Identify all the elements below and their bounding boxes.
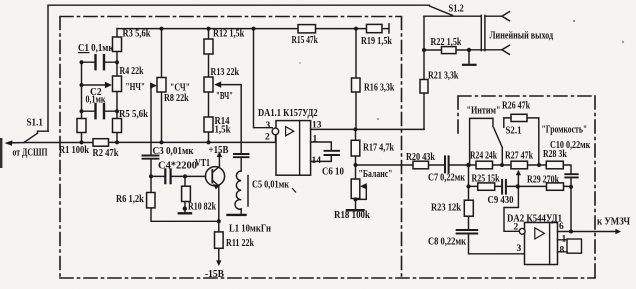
svg-text:R21 3,3k: R21 3,3k bbox=[428, 71, 459, 82]
svg-text:R19 1,5k: R19 1,5k bbox=[361, 36, 392, 47]
svg-text:C8 0,22мк: C8 0,22мк bbox=[428, 237, 467, 248]
svg-text:8: 8 bbox=[560, 246, 565, 256]
svg-text:C9 430: C9 430 bbox=[488, 195, 514, 206]
svg-text:R5 5,6k: R5 5,6k bbox=[119, 109, 148, 120]
svg-text:R8 22k: R8 22k bbox=[164, 93, 189, 104]
svg-text:к УМЗЧ: к УМЗЧ bbox=[597, 217, 630, 228]
svg-text:R10 82k: R10 82k bbox=[188, 202, 216, 213]
svg-text:R13 22k: R13 22k bbox=[211, 67, 240, 78]
svg-text:R20 43k: R20 43k bbox=[406, 152, 435, 163]
svg-text:14: 14 bbox=[312, 156, 322, 166]
svg-text:3: 3 bbox=[517, 244, 522, 254]
svg-text:R11 22k: R11 22k bbox=[226, 238, 254, 249]
svg-text:0,1мк: 0,1мк bbox=[86, 95, 107, 106]
svg-text:R27 47k: R27 47k bbox=[505, 151, 533, 162]
svg-text:"Интим": "Интим" bbox=[467, 106, 501, 117]
svg-text:R25 15k: R25 15k bbox=[472, 174, 500, 185]
svg-text:"Баланс": "Баланс" bbox=[359, 169, 393, 180]
svg-text:R6 1,2k: R6 1,2k bbox=[116, 194, 144, 205]
svg-text:L1 10мкГн: L1 10мкГн bbox=[229, 224, 271, 235]
svg-text:C4*2200: C4*2200 bbox=[158, 161, 197, 172]
svg-text:C7 0,22мк: C7 0,22мк bbox=[428, 173, 466, 184]
svg-text:R22 1,5k: R22 1,5k bbox=[431, 37, 462, 48]
svg-text:+15В: +15В bbox=[209, 145, 229, 156]
svg-text:R24 24k: R24 24k bbox=[470, 151, 497, 162]
svg-text:R16 3,3k: R16 3,3k bbox=[364, 83, 395, 94]
svg-text:C5 0,01мк: C5 0,01мк bbox=[252, 180, 290, 191]
svg-text:"ВЧ": "ВЧ" bbox=[216, 91, 233, 102]
svg-text:R1 100k: R1 100k bbox=[59, 145, 89, 156]
svg-text:Линейный выход: Линейный выход bbox=[490, 31, 554, 42]
svg-text:R23 12k: R23 12k bbox=[431, 203, 461, 214]
svg-text:1,5k: 1,5k bbox=[215, 125, 231, 136]
svg-text:R17 4,7k: R17 4,7k bbox=[363, 143, 394, 154]
svg-text:"Громкость": "Громкость" bbox=[542, 125, 588, 136]
svg-text:3: 3 bbox=[266, 121, 271, 131]
svg-text:S2.1: S2.1 bbox=[506, 126, 522, 137]
svg-text:-15В: -15В bbox=[205, 269, 224, 280]
svg-text:S1.2: S1.2 bbox=[449, 4, 464, 15]
svg-text:R2 47k: R2 47k bbox=[93, 148, 119, 159]
svg-text:R15 47k: R15 47k bbox=[292, 35, 318, 46]
svg-text:DA1.1 К157УД2: DA1.1 К157УД2 bbox=[258, 108, 318, 119]
svg-text:1: 1 bbox=[313, 135, 318, 145]
svg-text:2: 2 bbox=[514, 223, 519, 233]
svg-text:C3 0,01мк: C3 0,01мк bbox=[153, 146, 195, 157]
svg-text:1: 1 bbox=[562, 235, 567, 245]
svg-text:R28 3k: R28 3k bbox=[543, 149, 567, 160]
svg-text:R3 5,6k: R3 5,6k bbox=[123, 28, 151, 39]
svg-text:S1.1: S1.1 bbox=[27, 118, 43, 129]
svg-text:R12 1,5k: R12 1,5k bbox=[213, 29, 244, 40]
svg-text:"СЧ": "СЧ" bbox=[170, 83, 190, 94]
svg-text:6: 6 bbox=[559, 222, 564, 232]
svg-text:R29 270k: R29 270k bbox=[527, 175, 559, 186]
svg-text:R4 22k: R4 22k bbox=[120, 66, 144, 77]
svg-text:2: 2 bbox=[265, 133, 270, 143]
svg-text:13: 13 bbox=[312, 120, 322, 130]
svg-text:VT1: VT1 bbox=[195, 158, 210, 169]
svg-text:C6 10: C6 10 bbox=[322, 167, 344, 178]
svg-text:R26 47k: R26 47k bbox=[502, 101, 530, 112]
svg-text:R18 100k: R18 100k bbox=[334, 210, 370, 221]
svg-text:"НЧ": "НЧ" bbox=[126, 82, 146, 93]
svg-text:от ДСШП: от ДСШП bbox=[13, 148, 48, 159]
